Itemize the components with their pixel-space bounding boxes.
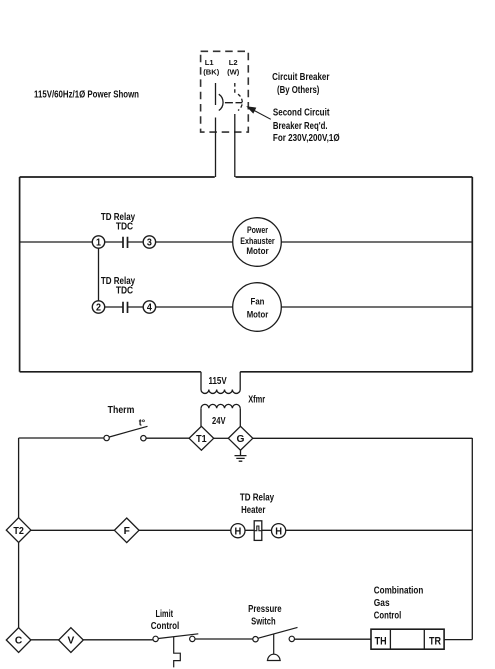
svg-text:L2: L2: [229, 58, 238, 67]
svg-text:Breaker Req'd.: Breaker Req'd.: [273, 121, 328, 132]
wire L1 lower to control box: [215, 118, 217, 178]
transformer secondary stub right: [239, 408, 241, 426]
terminal T2: [6, 518, 31, 543]
control box outline: [20, 177, 473, 372]
svg-text:Gas: Gas: [374, 598, 390, 609]
svg-text:L1: L1: [205, 58, 215, 67]
wire link node1 to node2: [98, 242, 100, 307]
heater pin H right: [272, 524, 286, 538]
svg-text:(By Others): (By Others): [277, 85, 319, 96]
breaker tie bar (dashed): [225, 102, 243, 104]
pressure switch: [253, 637, 258, 642]
wire L2 upper (dashed): [234, 83, 236, 93]
node 3: [143, 236, 155, 248]
svg-text:2: 2: [96, 303, 101, 314]
circuit breaker pole L1: [219, 94, 223, 110]
svg-text:Fan: Fan: [251, 297, 265, 308]
ground: [235, 450, 247, 461]
transformer primary stub right: [239, 372, 241, 390]
svg-text:24V: 24V: [212, 415, 226, 427]
svg-text:H: H: [275, 526, 282, 537]
svg-text:Exhauster: Exhauster: [240, 236, 275, 247]
wire L2 lower to control box: [234, 114, 236, 177]
terminal T1: [189, 426, 214, 450]
svg-text:Xfmr: Xfmr: [248, 395, 265, 406]
svg-text:TDC: TDC: [116, 221, 133, 232]
wire row A mid: [146, 437, 189, 439]
svg-text:Control: Control: [151, 621, 180, 632]
svg-text:Circuit Breaker: Circuit Breaker: [272, 72, 329, 83]
svg-text:C: C: [15, 636, 23, 647]
TD relay heater element: [254, 521, 262, 541]
svg-text:TD Relay: TD Relay: [240, 492, 275, 503]
transformer secondary stub left: [200, 408, 202, 426]
right bus wire: [444, 438, 472, 640]
terminal F: [114, 518, 139, 543]
svg-text:Control: Control: [374, 610, 402, 621]
wire row A left (thermostat row): [19, 437, 104, 439]
circuit breaker pole L2 (dashed): [238, 94, 242, 110]
left bus wire (T2 column): [18, 438, 20, 628]
svg-text:G: G: [237, 434, 245, 445]
wire T1 to G: [214, 437, 229, 439]
wire row C segment 3: [295, 638, 371, 640]
transformer primary coil 115V: [201, 390, 240, 394]
TD relay contact TDC (1-3): [123, 241, 127, 244]
svg-text:TH: TH: [375, 636, 387, 648]
svg-text:Heater: Heater: [241, 505, 265, 516]
svg-text:3: 3: [147, 238, 152, 249]
svg-text:4: 4: [147, 303, 152, 314]
svg-text:Pressure: Pressure: [248, 604, 282, 615]
svg-text:t°: t°: [139, 418, 146, 428]
limit control switch: [153, 636, 158, 641]
circuit breaker enclosure (dashed box): [201, 51, 249, 132]
transformer primary stub left: [200, 372, 202, 390]
node 2: [92, 301, 104, 313]
svg-text:Combination: Combination: [374, 586, 424, 597]
wire row C segment 2: [195, 638, 253, 640]
motor M1 Power Exhauster: [233, 218, 282, 267]
svg-text:H: H: [235, 526, 242, 537]
wire row A right: [253, 437, 472, 439]
svg-text:F: F: [124, 526, 130, 537]
svg-text:Therm: Therm: [108, 405, 135, 416]
wire L1 upper: [215, 83, 217, 105]
svg-text:T2: T2: [13, 526, 24, 537]
wire row B: [19, 529, 473, 531]
svg-text:Motor: Motor: [247, 309, 269, 320]
motor M2 Fan: [233, 283, 282, 332]
svg-text:Power: Power: [247, 225, 268, 236]
svg-text:115V: 115V: [209, 375, 227, 387]
node 4: [143, 301, 155, 313]
svg-text:For 230V,200V,1Ø: For 230V,200V,1Ø: [273, 133, 340, 144]
node 1: [92, 236, 104, 248]
svg-text:Second Circuit: Second Circuit: [273, 108, 330, 119]
svg-text:Switch: Switch: [251, 616, 276, 627]
wire row 2 (rung 2): [99, 306, 473, 308]
svg-text:TR: TR: [429, 636, 441, 648]
svg-text:Limit: Limit: [156, 609, 174, 620]
svg-text:TDC: TDC: [116, 286, 133, 297]
transformer secondary coil 24V: [201, 404, 240, 408]
svg-text:(W): (W): [227, 67, 240, 76]
terminal G: [228, 426, 253, 450]
svg-text:V: V: [68, 636, 75, 647]
svg-text:1: 1: [96, 238, 101, 249]
wire row 1 (rung 1): [20, 241, 473, 243]
heater pin H left: [231, 524, 245, 538]
thermostat switch t°: [104, 435, 109, 440]
svg-text:Motor: Motor: [246, 246, 268, 257]
TD relay contact TDC (2-4): [123, 306, 127, 309]
svg-text:T1: T1: [196, 434, 207, 445]
terminal V: [59, 628, 84, 653]
wire row C segment 1: [31, 639, 153, 641]
annotation arrow to second breaker: [251, 109, 271, 120]
combination gas control box: [371, 629, 444, 649]
terminal C: [6, 628, 31, 653]
svg-text:(BK): (BK): [203, 67, 219, 76]
svg-text:115V/60Hz/1Ø Power Shown: 115V/60Hz/1Ø Power Shown: [34, 89, 139, 100]
